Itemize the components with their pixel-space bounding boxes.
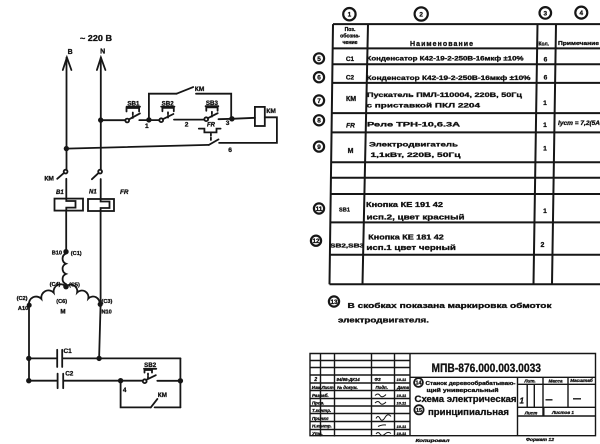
svg-text:N1: N1 — [89, 190, 97, 196]
svg-text:Дата: Дата — [396, 385, 410, 390]
svg-text:В10: В10 — [52, 250, 62, 256]
svg-text:Разраб.: Разраб. — [312, 393, 329, 398]
svg-text:С2: С2 — [346, 75, 355, 82]
svg-text:принципиальная: принципиальная — [428, 407, 509, 417]
svg-text:МПВ-876.000.003.0033: МПВ-876.000.003.0033 — [432, 363, 542, 375]
svg-text:(С1): (С1) — [71, 251, 82, 257]
svg-text:11: 11 — [316, 206, 323, 213]
svg-text:10.11: 10.11 — [397, 431, 407, 436]
svg-text:1: 1 — [543, 100, 547, 107]
svg-text:1,1кВт, 220В, 50Гц: 1,1кВт, 220В, 50Гц — [371, 152, 461, 159]
svg-text:исп.2, цвет красный: исп.2, цвет красный — [367, 214, 465, 222]
svg-text:Пров.: Пров. — [312, 400, 324, 405]
svg-text:6: 6 — [544, 57, 548, 64]
svg-text:В скобках показана маркировка: В скобках показана маркировка обмоток — [348, 302, 553, 310]
svg-text:Листов 1: Листов 1 — [551, 410, 574, 415]
svg-text:Примечание: Примечание — [558, 41, 599, 47]
svg-text:А10: А10 — [18, 306, 28, 312]
svg-text:КМ: КМ — [266, 108, 276, 115]
svg-text:3: 3 — [544, 10, 548, 17]
svg-text:ФЗ: ФЗ — [375, 377, 381, 382]
svg-text:Т.контр.: Т.контр. — [312, 408, 331, 413]
svg-text:10.11: 10.11 — [397, 393, 407, 398]
svg-text:Лист: Лист — [524, 411, 538, 416]
svg-text:Утв.: Утв. — [312, 431, 323, 436]
svg-text:Изм.Лист: Изм.Лист — [312, 385, 334, 390]
svg-text:2: 2 — [313, 377, 317, 383]
svg-text:В1: В1 — [56, 190, 64, 196]
svg-text:Схема электрическая: Схема электрическая — [415, 394, 517, 404]
svg-text:Конденсатор К42-19-2-250В-16мк: Конденсатор К42-19-2-250В-16мкф ±10% — [367, 56, 525, 63]
svg-text:обозна-: обозна- — [340, 33, 360, 40]
svg-text:9: 9 — [317, 144, 321, 151]
svg-text:Iуст = 7,2(5А: Iуст = 7,2(5А — [558, 121, 600, 127]
svg-text:SB1: SB1 — [127, 100, 140, 107]
svg-text:13: 13 — [330, 299, 338, 306]
svg-text:10.11: 10.11 — [397, 377, 407, 382]
svg-text:1: 1 — [145, 123, 149, 130]
svg-text:2: 2 — [185, 122, 189, 129]
svg-text:Кнопка КЕ 181 42: Кнопка КЕ 181 42 — [368, 235, 444, 242]
svg-text:4: 4 — [580, 10, 584, 17]
svg-text:15: 15 — [416, 408, 422, 414]
svg-text:Н.контр.: Н.контр. — [312, 423, 332, 428]
svg-text:(С2): (С2) — [17, 296, 28, 302]
svg-text:Кол.: Кол. — [539, 41, 550, 47]
svg-text:Копировал: Копировал — [416, 438, 450, 443]
svg-text:3: 3 — [226, 120, 230, 127]
svg-text:12: 12 — [312, 238, 320, 245]
svg-text:(С6): (С6) — [56, 299, 67, 305]
svg-text:SB2,SB3: SB2,SB3 — [330, 244, 364, 250]
svg-text:~ 220 В: ~ 220 В — [80, 34, 112, 43]
svg-text:КМ: КМ — [346, 96, 356, 103]
svg-text:SB2: SB2 — [144, 362, 157, 369]
svg-text:Пускатель ПМЛ-110004, 220В, 50: Пускатель ПМЛ-110004, 220В, 50Гц — [367, 92, 522, 99]
svg-text:5: 5 — [317, 56, 321, 63]
svg-text:исп.1 цвет черный: исп.1 цвет черный — [366, 244, 456, 252]
svg-text:Кнопка КЕ 191 42: Кнопка КЕ 191 42 — [366, 202, 443, 209]
svg-text:2: 2 — [419, 12, 423, 19]
svg-text:SB1: SB1 — [339, 207, 350, 213]
svg-text:(С3): (С3) — [102, 299, 113, 305]
svg-text:6: 6 — [317, 75, 321, 82]
svg-text:№ докум.: № докум. — [337, 385, 358, 390]
svg-text:SB3: SB3 — [206, 100, 219, 107]
svg-text:В: В — [68, 49, 73, 56]
svg-text:Лит.: Лит. — [523, 379, 535, 384]
svg-text:(С5): (С5) — [69, 283, 80, 289]
svg-text:с приставкой ПКЛ 2204: с приставкой ПКЛ 2204 — [367, 102, 481, 110]
svg-text:1: 1 — [543, 122, 547, 129]
svg-text:С1: С1 — [346, 56, 355, 63]
svg-text:(С4): (С4) — [50, 282, 61, 288]
svg-text:6: 6 — [228, 147, 232, 154]
svg-text:КМ: КМ — [195, 86, 205, 93]
svg-text:Масса: Масса — [548, 378, 563, 383]
svg-text:6: 6 — [544, 75, 548, 82]
svg-text:Принял: Принял — [312, 416, 329, 421]
svg-text:FR: FR — [346, 123, 355, 130]
svg-text:Реле ТРН-10,6.3А: Реле ТРН-10,6.3А — [367, 121, 460, 128]
svg-text:FR: FR — [207, 123, 216, 129]
svg-text:10.11: 10.11 — [397, 401, 407, 406]
svg-text:С1: С1 — [64, 348, 73, 355]
svg-text:8: 8 — [317, 118, 321, 125]
svg-text:М: М — [348, 148, 354, 155]
svg-text:Поз.: Поз. — [345, 27, 356, 33]
svg-text:FR: FR — [120, 189, 129, 196]
svg-text:КМ: КМ — [158, 392, 167, 399]
svg-text:КМ: КМ — [44, 176, 54, 183]
svg-text:2: 2 — [541, 242, 545, 249]
svg-text:10.11: 10.11 — [397, 424, 407, 429]
svg-text:Масштаб: Масштаб — [570, 377, 593, 383]
svg-text:Станок деревообрабатываю-: Станок деревообрабатываю- — [426, 380, 516, 387]
svg-text:Конденсатор К42-19-2-250В-16мк: Конденсатор К42-19-2-250В-16мкф ±10% — [367, 75, 532, 82]
svg-text:электродвигателя.: электродвигателя. — [338, 317, 429, 324]
svg-text:чение: чение — [342, 40, 357, 46]
svg-text:4: 4 — [123, 387, 127, 394]
svg-text:1: 1 — [543, 208, 547, 215]
svg-text:щий универсальный: щий универсальный — [427, 387, 499, 394]
svg-text:С2: С2 — [65, 371, 74, 378]
svg-text:1: 1 — [543, 146, 547, 153]
svg-text:7: 7 — [317, 98, 321, 105]
svg-text:М: М — [60, 308, 65, 315]
svg-text:Подп.: Подп. — [376, 385, 388, 390]
svg-text:N10: N10 — [102, 310, 112, 316]
svg-text:Наименование: Наименование — [410, 41, 473, 48]
svg-text:Формат 12: Формат 12 — [526, 437, 554, 442]
svg-text:94/98-ДК14: 94/98-ДК14 — [337, 377, 361, 382]
svg-text:Электродвигатель: Электродвигатель — [369, 142, 458, 149]
svg-text:1: 1 — [348, 12, 352, 19]
svg-text:N: N — [100, 49, 105, 56]
svg-text:14: 14 — [416, 381, 422, 387]
svg-text:1: 1 — [520, 397, 525, 406]
svg-text:SB2: SB2 — [162, 101, 175, 108]
